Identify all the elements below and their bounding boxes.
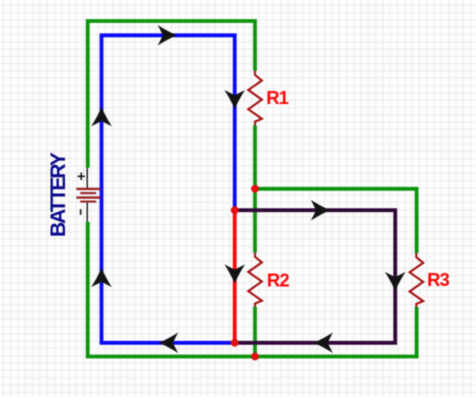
resistor R1 zigzag — [248, 71, 262, 126]
current arrow blue right (down) — [224, 90, 245, 109]
svg-text:BATTERY: BATTERY — [47, 152, 70, 237]
node junction dot C (blue/purple/red bottom) — [231, 339, 239, 347]
current arrow purple top (right) — [311, 200, 330, 221]
node junction dot A (blue/purple/red top) — [231, 206, 239, 214]
current arrow blue left upper (up) — [91, 107, 112, 126]
wire red branch middle — [233, 210, 237, 343]
battery minus mark — [80, 209, 82, 215]
wire purple right mesh loop — [235, 210, 396, 343]
svg-text:R1: R1 — [266, 87, 288, 108]
node junction dot D (green bottom) — [251, 353, 259, 361]
battery BT1 leads — [86, 168, 88, 222]
wire green outer loop: battery top, top rail, down to R1 — [88, 21, 255, 168]
wire green branch to R3 — [255, 189, 417, 253]
node junction dot B (green branch) — [251, 185, 259, 193]
current arrow purple right (down) — [385, 272, 406, 291]
wire blue left mesh loop — [102, 35, 235, 343]
wire green mid vertical below R2 — [253, 307, 257, 357]
svg-text:R3: R3 — [427, 269, 449, 290]
current arrow purple bottom (left) — [314, 333, 333, 354]
battery BT1 plates — [76, 189, 100, 202]
current arrow red middle (down) — [224, 264, 245, 283]
battery plus mark — [78, 173, 85, 180]
resistor R3 zigzag — [410, 253, 424, 307]
wire green mid vertical between R1 and R2 — [253, 126, 257, 253]
wire green bottom rail: battery bottom, bottom rail, up to R3 bottom — [88, 222, 417, 357]
svg-text:R2: R2 — [267, 269, 289, 290]
current arrow blue left lower (up) — [91, 268, 112, 287]
current arrow blue bottom (left) — [159, 333, 178, 354]
current arrow blue top (right) — [158, 25, 177, 46]
resistor R2 zigzag — [248, 253, 262, 307]
